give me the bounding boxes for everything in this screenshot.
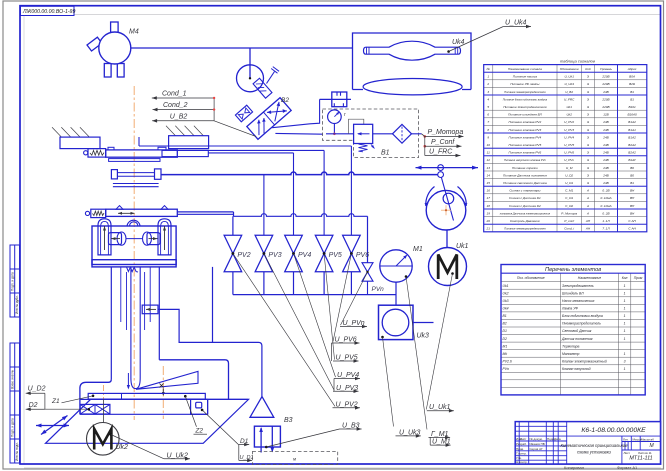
svg-text:В2А2: В2А2 [628, 143, 636, 147]
svg-text:Насос механических: Насос механических [562, 299, 595, 303]
PV4 bottom stub [293, 272, 295, 295]
svg-text:PV4: PV4 [298, 252, 311, 259]
svg-text:10: 10 [486, 143, 490, 147]
svg-text:220В: 220В [601, 82, 609, 86]
faint construction line top [74, 14, 660, 16]
svg-text:U_PV4: U_PV4 [564, 135, 574, 139]
svg-text:U_Uk4: U_Uk4 [564, 82, 574, 86]
svg-text:В2D: В2D [629, 82, 636, 86]
svg-text:таблица сигналов: таблица сигналов [560, 59, 595, 64]
svg-text:ВН: ВН [630, 211, 635, 215]
svg-text:Копировал: Копировал [564, 465, 585, 470]
lamp enclosure box [353, 33, 472, 90]
svg-text:показания Датчиков тяжеловоспр: показания Датчиков тяжеловосприятия [500, 211, 551, 215]
svg-text:U_Uk1: U_Uk1 [564, 75, 574, 79]
svg-text:13: 13 [486, 166, 490, 170]
svg-text:D2: D2 [503, 337, 507, 341]
upper slide: spring box [84, 151, 88, 155]
PV2 bottom stub [232, 272, 234, 295]
svg-text:Uk2: Uk2 [116, 444, 129, 451]
muffler on B2 [235, 105, 252, 122]
right cylinder [158, 219, 171, 255]
crank arm [441, 175, 454, 221]
svg-text:А: А [586, 196, 589, 200]
svg-text:А: А [586, 204, 589, 208]
svg-text:Питание шпинделя ВЛ: Питание шпинделя ВЛ [508, 113, 543, 117]
svg-text:Питание пневмораспределителя: Питание пневмораспределителя [504, 90, 546, 94]
svg-text:Световой Датчик: Световой Датчик [562, 329, 592, 333]
B3 pump box [254, 426, 280, 447]
svg-text:В2: В2 [281, 97, 289, 104]
svg-text:Питание светового Датчика: Питание светового Датчика [503, 181, 547, 185]
faint construction line left [23, 15, 25, 464]
wall hatching right [166, 126, 203, 136]
svg-text:В0А: В0А [629, 75, 635, 79]
svg-text:U_PV5: U_PV5 [564, 143, 574, 147]
wall hatching left [52, 127, 89, 137]
svg-text:0..2В: 0..2В [602, 211, 609, 215]
svg-text:7..1Л: 7..1Л [602, 227, 610, 231]
svg-text:М4: М4 [129, 29, 139, 36]
net label P_Conf [424, 145, 427, 148]
svg-text:U_Uk4: U_Uk4 [505, 20, 527, 27]
valve PVn [362, 263, 373, 282]
svg-text:В1: В1 [630, 90, 634, 94]
svg-text:К6-1-08.00.00.000КЕ: К6-1-08.00.00.000КЕ [581, 427, 646, 434]
svg-text:24В: 24В [602, 181, 609, 185]
svg-text:U_PV2: U_PV2 [564, 120, 574, 124]
top-left designation box [21, 6, 76, 15]
svg-text:Электродвигатель: Электродвигатель [562, 284, 594, 288]
motion arrows [36, 425, 69, 427]
svg-text:Клапан напускной: Клапан напускной [562, 367, 591, 371]
svg-text:Обозначение: Обозначение [560, 67, 579, 71]
svg-text:Клапан электромагнитный: Клапан электромагнитный [562, 359, 607, 363]
svg-text:Блок подготовки воздуха: Блок подготовки воздуха [562, 314, 603, 318]
lower stage spring box [85, 211, 89, 215]
svg-text:Лит.: Лит. [623, 437, 629, 441]
svg-text:U_Uk1: U_Uk1 [429, 404, 451, 411]
air prep unit B1 dashed box [323, 109, 419, 158]
valve PV2 [224, 235, 242, 271]
svg-text:Подп. и дата: Подп. и дата [11, 272, 15, 291]
base box [80, 398, 249, 400]
svg-text:B2: B2 [503, 322, 507, 326]
svg-text:Питание Датчика положения: Питание Датчика положения [503, 173, 547, 177]
svg-text:0..10мА: 0..10мА [600, 196, 611, 200]
valve PV4 [285, 235, 303, 271]
svg-text:0..10мА: 0..10мА [600, 204, 611, 208]
pipe staircase to B3 [158, 309, 262, 396]
svg-text:D1: D1 [503, 329, 507, 333]
machine frame outline right [159, 360, 228, 400]
svg-text:24В: 24В [602, 173, 609, 177]
svg-text:24В: 24В [602, 143, 609, 147]
svg-text:1: 1 [624, 337, 626, 341]
svg-text:В1: В1 [630, 181, 634, 185]
chamber bottom plate [92, 260, 176, 267]
svg-text:А: А [586, 211, 589, 215]
svg-text:P_Мотора: P_Мотора [428, 129, 464, 136]
valve PV3 [255, 235, 273, 271]
svg-text:U_PVn: U_PVn [343, 320, 365, 327]
svg-text:PV2.6: PV2.6 [503, 359, 512, 363]
svg-text:Подп. и дата: Подп. и дата [11, 418, 15, 437]
feed line to PV6 [138, 137, 140, 146]
svg-text:U_D2: U_D2 [565, 173, 573, 177]
PV2 top stub [232, 216, 234, 235]
svg-text:Питание клапана PV3: Питание клапана PV3 [509, 128, 542, 132]
svg-text:Uk2: Uk2 [503, 291, 509, 295]
svg-text:Пров.: Пров. [516, 447, 524, 451]
gauge M1 stem [395, 282, 397, 305]
pump Uk3 box [379, 305, 414, 339]
left margin stamp group 2 [10, 343, 20, 463]
stage travel arrow [118, 212, 135, 214]
svg-text:Cond_1: Cond_1 [162, 91, 187, 98]
svg-text:ВН: ВН [630, 189, 635, 193]
rod seal domes [127, 220, 140, 226]
svg-text:Термопара: Термопара [562, 344, 580, 348]
Uk3 outlet [413, 322, 434, 324]
svg-text:Сигнал с термопары: Сигнал с термопары [509, 189, 541, 193]
feed line to PV4 [208, 152, 293, 154]
svg-text:Питание горелки: Питание горелки [512, 166, 538, 170]
svg-text:1: 1 [624, 367, 626, 371]
PVn bottom stub [367, 281, 369, 294]
valve B2 (pneumatic distributor) [247, 98, 291, 140]
svg-text:Z1: Z1 [51, 398, 60, 405]
ceiling block right [169, 136, 209, 149]
arrow onto table [162, 389, 164, 395]
svg-text:U_PV3: U_PV3 [564, 128, 574, 132]
svg-text:Mk: Mk [503, 352, 508, 356]
svg-text:Т.контр.: Т.контр. [516, 452, 527, 456]
svg-text:220В: 220В [601, 105, 609, 109]
leader PVn [341, 272, 368, 325]
signals table [484, 59, 647, 232]
svg-text:Питание клапана PV4: Питание клапана PV4 [509, 135, 542, 139]
svg-text:18: 18 [486, 204, 490, 208]
svg-text:Формат А1: Формат А1 [617, 465, 638, 470]
svg-text:В2А2: В2А2 [628, 151, 636, 155]
left margin stamp group 1 [10, 245, 20, 317]
svg-text:5: 5 [487, 105, 489, 109]
leader and net label U_Uk2 [111, 435, 164, 459]
svg-text:Уровень: Уровень [600, 67, 612, 71]
svg-text:С_М1: С_М1 [565, 189, 574, 193]
svg-text:1: 1 [624, 322, 626, 326]
svg-text:U_M: U_M [566, 166, 573, 170]
pulley center mark [441, 205, 451, 215]
svg-text:12В: 12В [603, 113, 609, 117]
title block [515, 422, 660, 465]
svg-text:Лист: Лист [520, 437, 527, 441]
small fitting above B1 [332, 92, 347, 107]
svg-text:1: 1 [624, 299, 626, 303]
svg-text:M1: M1 [503, 344, 508, 348]
centerline main axis [133, 86, 135, 420]
svg-text:Утв.: Утв. [516, 456, 522, 460]
leader Uk1 to U_Uk1 [426, 274, 452, 410]
faint construction line bottom [24, 467, 661, 469]
svg-text:7: 7 [487, 120, 489, 124]
PV3 bottom stub [263, 272, 265, 295]
svg-text:2: 2 [486, 82, 489, 86]
leader PV3 [264, 254, 334, 390]
svg-text:220В: 220В [601, 75, 609, 79]
slider arrow [416, 167, 479, 169]
svg-text:Лампа УФ: Лампа УФ [561, 307, 578, 311]
svg-text:АН: АН [585, 227, 591, 231]
svg-text:С АН: С АН [628, 219, 636, 223]
wire B2 top port riser [272, 99, 319, 127]
svg-text:1: 1 [624, 307, 626, 311]
chamber drop pipe [212, 267, 214, 343]
svg-text:Листов 11: Листов 11 [638, 451, 652, 455]
table plate [88, 393, 205, 399]
svg-text:Uk4: Uk4 [503, 307, 509, 311]
svg-text:Кол: Кол [622, 276, 628, 280]
wire through fitting [320, 98, 351, 100]
pointer arrow at tip [127, 373, 129, 388]
svg-text:Uk1: Uk1 [456, 243, 469, 250]
svg-text:М1: М1 [413, 246, 423, 253]
svg-text:1: 1 [487, 75, 489, 79]
svg-text:P_conf: P_conf [564, 219, 575, 223]
svg-text:24В: 24В [602, 135, 609, 139]
svg-text:Шпиндель ВЛ: Шпиндель ВЛ [562, 291, 584, 295]
PV5 bottom stub [323, 272, 325, 295]
svg-text:В3: В3 [284, 417, 293, 424]
svg-text:Кинематическая принципиальная: Кинематическая принципиальная [561, 443, 629, 448]
rotation arc right [458, 187, 467, 207]
svg-text:Cond_i: Cond_i [564, 227, 574, 231]
leader to U_Uk4 [447, 50, 450, 53]
filter B3 [250, 397, 274, 418]
svg-text:В16А0: В16А0 [627, 113, 637, 117]
svg-text:Питание клапана PV6: Питание клапана PV6 [509, 151, 542, 155]
svg-text:B1: B1 [503, 314, 507, 318]
svg-text:15: 15 [486, 181, 490, 185]
svg-text:PV3: PV3 [268, 252, 281, 259]
svg-text:Uk1: Uk1 [566, 105, 572, 109]
svg-text:В0: В0 [630, 173, 634, 177]
svg-text:U_PV6: U_PV6 [564, 151, 574, 155]
sensor pocket box [191, 399, 208, 414]
svg-text:С_D1: С_D1 [565, 196, 573, 200]
svg-text:В1А2: В1А2 [628, 120, 636, 124]
leader PV5 [324, 254, 334, 360]
left cylinder [98, 219, 111, 255]
svg-text:P_Conf: P_Conf [431, 139, 455, 146]
svg-text:24В: 24В [602, 151, 609, 155]
sub plate [109, 159, 160, 162]
motor Uk2 shaft [103, 399, 105, 423]
svg-text:Манометр: Манометр [562, 352, 579, 356]
PV6 bottom stub [350, 272, 352, 295]
svg-text:21: 21 [485, 227, 490, 231]
bearing block with cross [80, 404, 110, 414]
svg-text:24В: 24В [602, 120, 609, 124]
svg-text:Наименование: Наименование [578, 276, 602, 280]
svg-text:Питание клапана PV5: Питание клапана PV5 [509, 143, 542, 147]
svg-text:Взам. инв №: Взам. инв № [11, 370, 15, 389]
probe rod with tip [131, 267, 140, 389]
horizontal actuator left [117, 232, 126, 245]
side port [142, 305, 158, 314]
svg-text:ВН: ВН [630, 196, 635, 200]
svg-text:Питание клапана PV2: Питание клапана PV2 [509, 120, 542, 124]
horizontal actuator right [143, 232, 152, 245]
centerline lower table axis [162, 366, 164, 419]
svg-text:Контроль Давления: Контроль Давления [510, 219, 540, 223]
svg-text:PV5: PV5 [329, 252, 342, 259]
feed line to PV3 [263, 175, 265, 236]
svg-text:Датчик положения: Датчик положения [561, 337, 593, 341]
svg-text:Адрес: Адрес [627, 67, 637, 71]
svg-text:схема установки: схема установки [577, 450, 611, 455]
motor Uk1 [429, 248, 467, 286]
svg-text:Иванов ПВ: Иванов ПВ [530, 442, 545, 446]
svg-text:Uk3: Uk3 [417, 333, 430, 340]
svg-text:Питание насоса: Питание насоса [513, 75, 537, 79]
svg-text:Питание Электродвигателя: Питание Электродвигателя [503, 105, 547, 109]
svg-text:Сигнал с Датчика D2: Сигнал с Датчика D2 [509, 204, 541, 208]
gauge M1 [380, 250, 412, 282]
leader Uk3 to U_Uk3 [383, 337, 394, 427]
working zone dashed box [252, 452, 337, 465]
wire B2 bottom port to B1 pipe [275, 132, 323, 135]
piston rod assembly [253, 78, 272, 98]
B1 inlet gauge [328, 110, 342, 124]
svg-text:16: 16 [486, 189, 490, 193]
svg-text:ВН: ВН [630, 204, 635, 208]
svg-text:В1А1: В1А1 [628, 128, 636, 132]
svg-text:220В: 220В [601, 97, 609, 101]
svg-text:1: 1 [624, 329, 626, 333]
lower stage plate [116, 206, 123, 210]
motor Uk2 [87, 423, 120, 456]
svg-text:P_Мотора: P_Мотора [561, 211, 577, 215]
svg-text:Uk1: Uk1 [503, 284, 509, 288]
svg-text:PVn: PVn [372, 286, 385, 293]
rod spring [127, 267, 139, 272]
svg-text:Поз. обозначение: Поз. обозначение [517, 276, 545, 280]
svg-text:Z2: Z2 [194, 428, 203, 435]
upper slide plate [108, 147, 114, 150]
pilot line [349, 119, 364, 134]
leader PV2 [233, 254, 335, 407]
Uk1 shaft [446, 230, 448, 248]
leader PV6 [333, 254, 351, 342]
svg-text:24В: 24В [602, 166, 609, 170]
svg-text:24В: 24В [602, 128, 609, 132]
svg-text:Серов АГ: Серов АГ [530, 447, 544, 451]
svg-text:0..2В: 0..2В [602, 189, 609, 193]
svg-text:4: 4 [487, 97, 489, 101]
svg-text:17: 17 [486, 196, 490, 200]
svg-text:11: 11 [487, 151, 490, 155]
pneumatic chamber [92, 226, 176, 265]
svg-text:19: 19 [486, 211, 490, 215]
net label P_Motora [424, 135, 427, 138]
svg-text:Разраб.: Разраб. [516, 442, 527, 446]
svg-text:1: 1 [624, 314, 626, 318]
svg-text:Питание напускного клапана PVn: Питание напускного клапана PVn [504, 158, 546, 162]
pressure regulator [354, 124, 373, 143]
valve PV6 [343, 235, 361, 271]
centerline Uk2 shaft axis [103, 385, 105, 399]
leader PV4 [294, 254, 336, 378]
svg-text:Перечень элементов: Перечень элементов [545, 267, 601, 273]
svg-text:Наименование сигнала: Наименование сигнала [508, 67, 542, 71]
ceiling block left [60, 137, 100, 149]
svg-text:PV6: PV6 [356, 252, 369, 259]
svg-text:Код: Код [585, 67, 591, 71]
svg-text:Инв № подл.: Инв № подл. [15, 442, 19, 461]
leader to U_B3 [266, 429, 339, 447]
svg-text:1: 1 [624, 352, 626, 356]
link rod to crank, with jumps [161, 172, 441, 175]
svg-text:Прим: Прим [634, 276, 643, 280]
svg-text:U_B2: U_B2 [170, 113, 188, 120]
svg-text:U_Uk2: U_Uk2 [167, 452, 189, 459]
svg-text:PVn: PVn [503, 367, 510, 371]
svg-text:Пневмораспределитель: Пневмораспределитель [562, 322, 601, 326]
svg-text:8: 8 [487, 128, 489, 132]
svg-text:Cond_2: Cond_2 [163, 102, 188, 109]
machine frame outline left [80, 379, 111, 414]
svg-text:24В: 24В [602, 90, 609, 94]
elements list table [501, 265, 645, 395]
wire M4 to lamp box [131, 47, 353, 49]
svg-text:1: 1 [624, 291, 626, 295]
svg-text:В1: В1 [381, 150, 390, 157]
svg-text:Н.контр.: Н.контр. [516, 460, 528, 464]
crank pulley [426, 190, 466, 230]
x mark [160, 384, 164, 388]
svg-text:PV2: PV2 [237, 252, 250, 259]
B1 pipe [326, 133, 422, 135]
svg-text:Лист: Лист [624, 451, 631, 455]
svg-text:U_PV2: U_PV2 [336, 401, 358, 408]
svg-text:9: 9 [487, 135, 489, 139]
svg-text:U_PVn: U_PVn [564, 158, 574, 162]
svg-text:В1: В1 [630, 97, 634, 101]
svg-text:U_FRC: U_FRC [564, 97, 575, 101]
valve PV5 [315, 235, 333, 271]
press column walls [110, 267, 112, 379]
svg-text:U_PV6: U_PV6 [335, 337, 357, 344]
svg-text:U_D1: U_D1 [565, 181, 573, 185]
thin plates [113, 183, 159, 185]
svg-text:Питание блока подготовки возду: Питание блока подготовки воздуха [503, 97, 548, 101]
manifold rod A with step and jumps [177, 211, 233, 213]
svg-text:С АН: С АН [628, 227, 636, 231]
svg-text:МТ11-111: МТ11-111 [629, 456, 652, 462]
svg-text:В1А2: В1А2 [628, 135, 636, 139]
svg-text:В1АУ: В1АУ [628, 158, 637, 162]
svg-text:АН: АН [585, 219, 591, 223]
eccentric drive circle [237, 65, 264, 92]
wire drop to eccentric [249, 48, 251, 78]
svg-text:U_FRC: U_FRC [429, 149, 453, 156]
svg-text:6: 6 [487, 113, 489, 117]
lamp lens ellipse [363, 79, 462, 95]
svg-text:Питание УФ лампы: Питание УФ лампы [510, 82, 540, 86]
svg-text:Uk3: Uk3 [503, 299, 509, 303]
